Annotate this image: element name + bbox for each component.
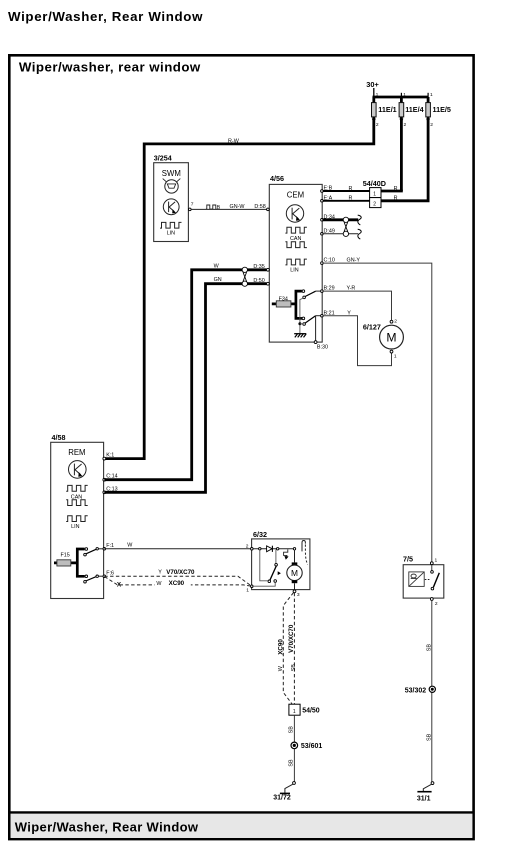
svg-text:Y: Y xyxy=(158,570,162,576)
svg-text:7: 7 xyxy=(191,202,194,208)
svg-text:R: R xyxy=(394,186,398,192)
node 30+ supply xyxy=(366,80,379,97)
svg-text:2: 2 xyxy=(430,122,433,128)
wire R CEM E:A to 54/40D pin2 xyxy=(322,196,369,202)
fuse 11E/4 xyxy=(399,92,423,128)
svg-text:F15: F15 xyxy=(61,553,70,559)
ground net inside CEM xyxy=(294,298,306,337)
fuse 11E/1 xyxy=(372,92,397,128)
svg-text:SB: SB xyxy=(289,726,295,734)
svg-text:LIN: LIN xyxy=(167,230,175,236)
svg-text:M: M xyxy=(386,331,396,345)
wire W REM C:14 to CEM D:35 xyxy=(104,263,266,479)
svg-text:2: 2 xyxy=(435,601,438,607)
svg-text:LIN: LIN xyxy=(71,524,79,530)
svg-text:31/1: 31/1 xyxy=(417,796,431,803)
splice 53/302 xyxy=(405,686,436,694)
svg-text:F:6: F:6 xyxy=(106,570,114,576)
svg-text:4/58: 4/58 xyxy=(52,433,66,442)
svg-text:E:A: E:A xyxy=(324,195,333,201)
diode in 6/32 xyxy=(267,546,273,552)
wire W dashed 6/32 pin3 XC90 branch xyxy=(278,593,294,704)
icon CAN waves in REM xyxy=(66,485,88,505)
svg-text:D:58: D:58 xyxy=(254,204,265,210)
svg-text:LIN: LIN xyxy=(290,268,298,274)
motor M in 6/32 xyxy=(287,550,302,591)
wire GN-Y CEM C:10 to 7/5 pin1 xyxy=(322,258,431,562)
svg-text:2: 2 xyxy=(404,122,407,128)
svg-text:XC90: XC90 xyxy=(278,639,285,655)
wire feed 11E/4 drop xyxy=(400,97,403,191)
svg-text:M: M xyxy=(291,568,298,578)
svg-text:30+: 30+ xyxy=(366,80,379,89)
svg-text:Wiper/washer, rear window: Wiper/washer, rear window xyxy=(19,60,201,75)
svg-text:11E/4: 11E/4 xyxy=(405,105,423,114)
fuse 11E/5 xyxy=(426,92,451,128)
svg-text:54/50: 54/50 xyxy=(302,707,320,714)
svg-text:1: 1 xyxy=(246,587,249,593)
svg-text:SB: SB xyxy=(426,644,432,652)
svg-text:1: 1 xyxy=(376,92,379,98)
pin B:30 of CEM xyxy=(314,341,328,351)
CEM left pins xyxy=(253,204,269,285)
splice 53/601 xyxy=(291,742,322,750)
icon LIN wave in REM xyxy=(66,516,88,530)
pin 7 of SWM xyxy=(189,202,194,211)
motor assembly 6/32 rear wiper motor xyxy=(252,530,310,590)
svg-text:GN: GN xyxy=(214,277,222,283)
connector 54/50 xyxy=(289,704,320,715)
svg-text:Y-R: Y-R xyxy=(347,286,356,292)
svg-text:GN-W: GN-W xyxy=(230,204,246,210)
svg-text:E:B: E:B xyxy=(324,186,333,192)
module SWM 3/254 steering wheel switch xyxy=(154,153,189,241)
svg-text:R: R xyxy=(349,196,353,202)
icon LIN wave in CEM xyxy=(285,259,306,274)
pin 3 of 6/32 xyxy=(293,590,300,598)
svg-text:R: R xyxy=(349,186,353,192)
hook continuation symbol in 6/32 xyxy=(302,541,308,565)
cam symbol in 6/32 xyxy=(284,549,289,559)
wire internal 6/32 top xyxy=(253,548,296,550)
REM right pins xyxy=(103,452,118,577)
wire GN-W SWM pin7 to CEM D:58 xyxy=(191,204,267,211)
relay contacts in REM xyxy=(77,548,103,583)
svg-text:Wiper/Washer, Rear Window: Wiper/Washer, Rear Window xyxy=(15,820,199,835)
wire SB dashed 6/32 pin3 V70/XC70 branch xyxy=(288,593,297,704)
svg-text:CEM: CEM xyxy=(287,190,304,199)
module CEM 4/56 central electronic module xyxy=(269,174,322,342)
wire R 54/40D pin2 to 11E/5 xyxy=(381,196,430,202)
svg-text:1: 1 xyxy=(430,92,433,98)
svg-text:R-W: R-W xyxy=(228,138,240,144)
svg-text:1: 1 xyxy=(293,709,296,715)
ground 31/72 xyxy=(273,782,295,802)
pin 2 of 7/5 xyxy=(430,598,438,608)
svg-text:3/254: 3/254 xyxy=(154,153,172,162)
svg-text:31/72: 31/72 xyxy=(273,795,291,802)
svg-text:1: 1 xyxy=(394,354,397,360)
svg-text:4/56: 4/56 xyxy=(270,174,284,183)
svg-text:XC90: XC90 xyxy=(169,580,185,587)
fuse F34 in CEM xyxy=(272,297,296,307)
svg-text:GN-Y: GN-Y xyxy=(347,258,361,264)
fuse F15 in REM xyxy=(54,553,77,566)
svg-text:3: 3 xyxy=(297,592,300,598)
CEM right pins xyxy=(321,186,335,317)
svg-text:53/601: 53/601 xyxy=(301,743,323,750)
svg-text:SB: SB xyxy=(288,759,294,767)
relay contacts in CEM xyxy=(296,290,321,341)
module REM 4/58 rear electronic module xyxy=(51,433,104,599)
wire GN REM C:13 to CEM D:50 xyxy=(104,277,266,492)
svg-text:6/127: 6/127 xyxy=(363,322,381,331)
svg-text:7/5: 7/5 xyxy=(403,555,413,564)
svg-text:F:1: F:1 xyxy=(106,543,114,549)
svg-text:SWM: SWM xyxy=(162,169,181,178)
svg-text:SB: SB xyxy=(427,733,433,741)
svg-text:54/40D: 54/40D xyxy=(363,179,386,188)
svg-text:11E/1: 11E/1 xyxy=(378,105,396,114)
wire SB 7/5 pin2 to ground 31/1 xyxy=(426,600,432,782)
switch blade in 7/5 xyxy=(431,565,440,590)
wire SB 54/50 to ground 31/72 xyxy=(288,715,294,782)
svg-text:Y: Y xyxy=(347,310,351,316)
6/32 pins xyxy=(246,543,253,593)
wire Y dashed REM F:6 to 6/32 pin1 V70/XC70 xyxy=(104,569,251,586)
svg-text:1: 1 xyxy=(373,191,376,197)
wire twisted pair symbol W GN xyxy=(242,267,247,286)
icon wiper switch in SWM xyxy=(163,179,181,193)
wire Y-R CEM B:29 to motor 6/127 pin2 xyxy=(322,286,391,321)
svg-text:2: 2 xyxy=(246,543,249,549)
icon LIN wave in SWM xyxy=(160,222,182,236)
footer bar xyxy=(9,812,473,838)
wire feed 11E/5 drop xyxy=(427,97,430,201)
svg-text:V70/XC70: V70/XC70 xyxy=(288,624,295,653)
svg-text:B:30: B:30 xyxy=(317,344,328,350)
svg-text:K:1: K:1 xyxy=(106,452,114,458)
svg-text:Wiper/Washer, Rear Window: Wiper/Washer, Rear Window xyxy=(8,9,203,24)
wire CAN twisted pair D:34 D:49 xyxy=(322,215,361,239)
svg-text:11E/5: 11E/5 xyxy=(433,105,451,114)
svg-text:1: 1 xyxy=(435,558,438,564)
pin 1 of 7/5 xyxy=(430,558,437,565)
icon CAN waves in CEM xyxy=(285,227,306,247)
wire 30+ bus xyxy=(373,96,429,99)
icon control-unit K symbol in SWM xyxy=(163,199,179,215)
svg-text:53/302: 53/302 xyxy=(405,687,427,694)
svg-text:SB: SB xyxy=(291,664,297,672)
switch 7/5 washer fluid level sensor xyxy=(403,555,444,598)
connector 54/40D xyxy=(363,179,386,208)
wire W dashed REM F:6 to 6/32 pin1 XC90 xyxy=(105,577,252,589)
svg-text:W: W xyxy=(214,263,220,269)
wire R 54/40D pin1 to 11E/4 xyxy=(381,186,403,192)
wire R-W from fuse 11E/1 to REM K:1 xyxy=(104,97,374,459)
motor 6/127 washer pump xyxy=(363,318,404,359)
svg-text:2: 2 xyxy=(394,318,397,324)
wire Y CEM B:21 to motor 6/127 pin1 xyxy=(322,310,391,365)
svg-text:6/32: 6/32 xyxy=(253,530,267,539)
svg-text:V70/XC70: V70/XC70 xyxy=(166,569,195,576)
svg-text:R: R xyxy=(394,196,398,202)
svg-text:1: 1 xyxy=(403,92,406,98)
icon control-unit K symbol in CEM xyxy=(286,205,303,222)
svg-text:2: 2 xyxy=(373,201,376,207)
sensor element in 7/5 xyxy=(409,572,431,587)
ground 31/1 xyxy=(417,782,434,803)
wire R CEM E:B to 54/40D pin1 xyxy=(322,186,369,192)
svg-text:2: 2 xyxy=(376,122,379,128)
svg-text:REM: REM xyxy=(68,448,85,457)
wire W REM F:1 to 6/32 pin2 xyxy=(104,543,250,549)
park switch in 6/32 xyxy=(252,550,281,587)
icon control-unit K symbol in REM xyxy=(69,461,87,479)
